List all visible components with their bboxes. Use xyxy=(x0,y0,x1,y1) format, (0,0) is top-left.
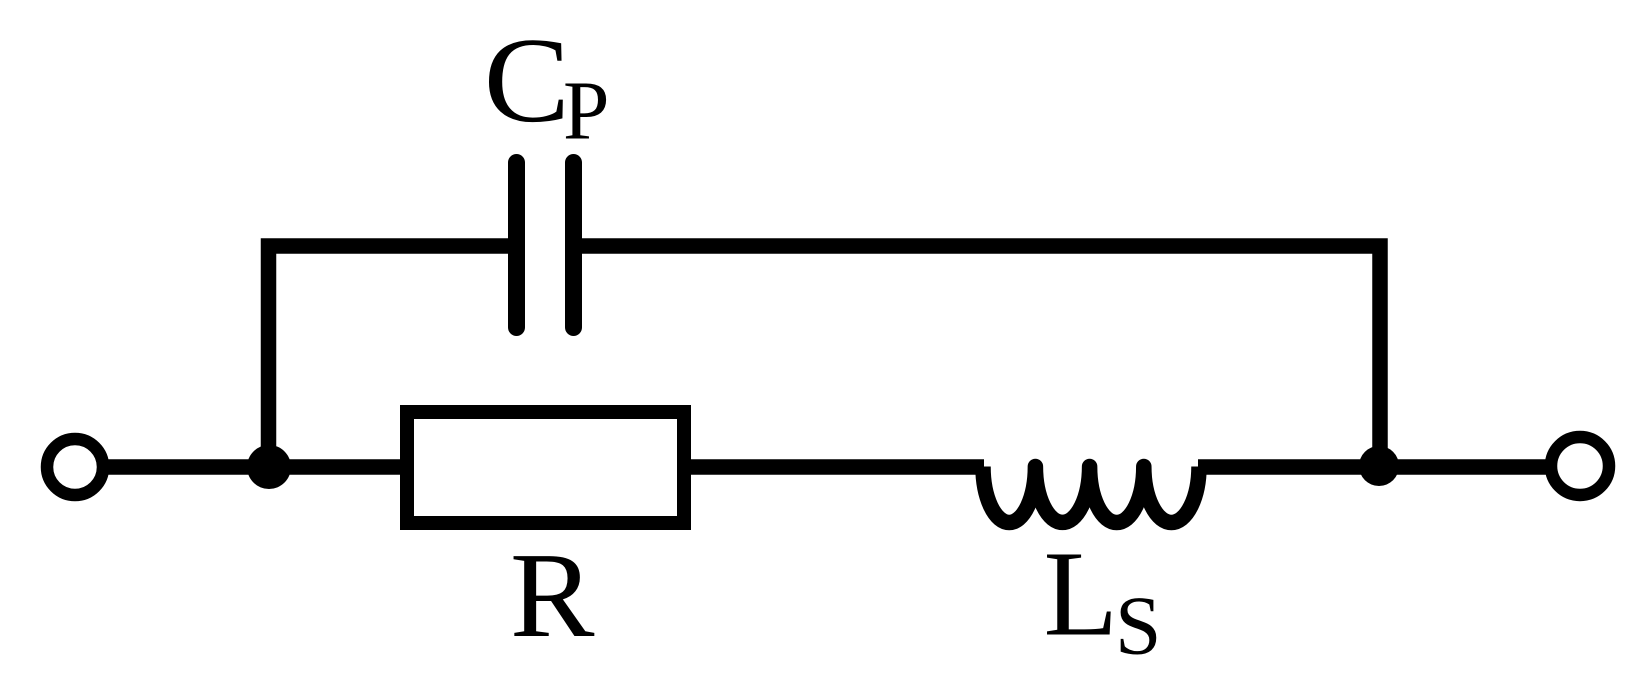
wire: resistor to inductor xyxy=(680,459,984,475)
wire: capacitor right plate across top rail and down to right junction xyxy=(580,246,1380,467)
inductor L_S xyxy=(983,467,1199,523)
svg-text:S: S xyxy=(1115,581,1161,673)
wire: right junction to right terminal xyxy=(1379,459,1560,475)
terminal: right port circle xyxy=(1551,437,1609,495)
svg-text:L: L xyxy=(1044,527,1119,662)
wire: left terminal to left junction xyxy=(95,459,269,475)
terminal: left port circle xyxy=(47,439,103,495)
label L_S xyxy=(1044,527,1162,673)
label C_P xyxy=(484,13,610,157)
wire: inductor to right junction xyxy=(1198,459,1379,475)
svg-text:C: C xyxy=(484,13,570,148)
svg-text:P: P xyxy=(563,66,609,158)
node: left junction dot xyxy=(247,445,291,489)
wire: left junction up to top rail and across to capacitor left plate xyxy=(269,246,511,467)
resistor R xyxy=(407,412,684,523)
node: right junction dot xyxy=(1359,446,1399,486)
wire: left junction to resistor xyxy=(269,459,420,475)
capacitor C_P xyxy=(517,163,574,328)
svg-text:R: R xyxy=(510,527,595,662)
